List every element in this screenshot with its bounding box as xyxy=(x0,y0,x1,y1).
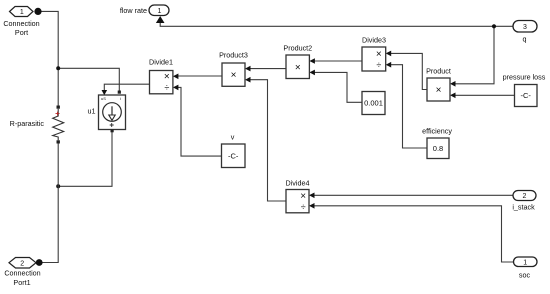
svg-text:R-parasitic: R-parasitic xyxy=(10,119,45,128)
node junction port1 net xyxy=(56,66,60,70)
svg-text:i: i xyxy=(120,96,121,101)
wire Product output to Divide3 xyxy=(388,53,427,89)
svg-text:Connection: Connection xyxy=(3,19,39,28)
svg-text:q: q xyxy=(523,35,527,44)
node junction q-net xyxy=(492,24,496,28)
source u1 xyxy=(88,91,126,133)
svg-text:Divide4: Divide4 xyxy=(286,179,310,188)
svg-text:×: × xyxy=(436,85,442,96)
wire soc to Divide4 xyxy=(312,206,514,262)
svg-text:0.8: 0.8 xyxy=(433,144,443,153)
port q (3) xyxy=(513,21,537,44)
block Product2 xyxy=(283,43,312,78)
svg-text:pressure loss: pressure loss xyxy=(503,73,546,82)
svg-text:Product: Product xyxy=(426,66,451,75)
svg-text:Divide1: Divide1 xyxy=(149,58,173,67)
wire Product3 output to Divide1 xyxy=(175,75,222,77)
wire v constant to Divide1 xyxy=(175,87,222,156)
svg-text:÷: ÷ xyxy=(164,83,169,93)
svg-text:2: 2 xyxy=(523,193,527,200)
block Divide3 xyxy=(362,36,386,71)
wire q-net flow rate horizontal xyxy=(160,23,513,84)
arrow into Product input 1 xyxy=(450,81,456,87)
svg-text:1: 1 xyxy=(158,8,162,15)
wire u1 bottom to port2 net xyxy=(58,132,112,186)
constant v xyxy=(222,133,246,168)
svg-text:÷: ÷ xyxy=(376,60,381,70)
wire Divide3 output to Product2 xyxy=(312,60,363,62)
svg-text:Product3: Product3 xyxy=(219,51,248,60)
svg-text:×: × xyxy=(300,191,306,202)
svg-text:flow rate: flow rate xyxy=(120,6,147,15)
svg-text:×: × xyxy=(164,72,170,83)
svg-text:Port: Port xyxy=(15,28,28,37)
svg-text:Connection: Connection xyxy=(4,269,40,278)
svg-text:0.001: 0.001 xyxy=(364,99,383,108)
svg-text:×: × xyxy=(231,70,237,81)
port i_stack (2) xyxy=(512,191,536,212)
port Connection Port1 (2) xyxy=(4,258,42,288)
block Product xyxy=(426,66,451,101)
svg-text:Port1: Port1 xyxy=(13,278,30,287)
svg-text:Divide3: Divide3 xyxy=(362,36,386,45)
svg-text:-C-: -C- xyxy=(520,91,531,100)
wire pressure loss to Product xyxy=(452,94,515,96)
wire Product2 output to Product3 xyxy=(247,68,286,70)
svg-text:3: 3 xyxy=(523,24,527,31)
port soc (1) xyxy=(514,257,538,280)
wire 0.001 to Product2 xyxy=(312,72,363,102)
svg-text:÷: ÷ xyxy=(301,202,306,212)
svg-text:Product2: Product2 xyxy=(283,43,312,52)
constant efficiency 0.8 xyxy=(422,127,452,159)
resistor R-parasitic xyxy=(10,106,64,144)
constant 0.001 xyxy=(362,92,385,115)
node junction port2 net xyxy=(56,184,60,188)
svg-text:v: v xyxy=(231,133,235,142)
svg-text:uS: uS xyxy=(101,96,106,101)
svg-text:×: × xyxy=(376,49,382,60)
svg-text:-C-: -C- xyxy=(228,151,239,160)
wire Connection Port1 net xyxy=(39,144,58,263)
svg-text:×: × xyxy=(295,62,301,73)
constant pressure loss xyxy=(503,73,546,107)
arrow into flow rate port xyxy=(156,16,165,23)
port flow rate (1) xyxy=(120,5,169,16)
svg-text:i_stack: i_stack xyxy=(512,203,535,212)
svg-text:1: 1 xyxy=(20,9,24,16)
block Divide1 xyxy=(149,58,173,94)
wire Divide4 output to Product3 xyxy=(247,80,286,201)
wire efficiency 0.8 to Divide3 xyxy=(388,65,427,148)
wire i_stack to Divide4 xyxy=(312,194,514,196)
svg-text:soc: soc xyxy=(519,271,531,280)
svg-text:u1: u1 xyxy=(88,107,96,116)
port Connection Port (1) xyxy=(3,7,41,38)
svg-text:2: 2 xyxy=(20,260,24,267)
svg-text:efficiency: efficiency xyxy=(422,127,452,136)
block Product3 xyxy=(219,51,248,87)
wire Connection Port net xyxy=(38,11,119,105)
svg-text:1: 1 xyxy=(523,259,527,266)
wire Divide1 output to u1 xyxy=(104,84,149,90)
block Divide4 xyxy=(286,179,310,213)
